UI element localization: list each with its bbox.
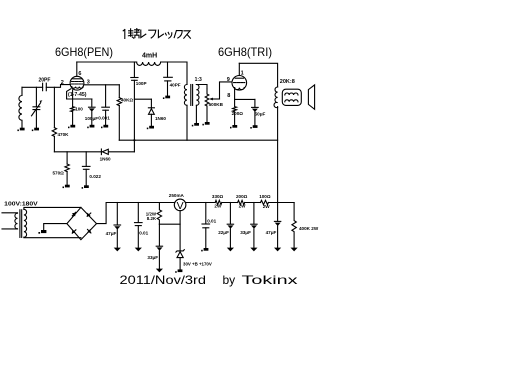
- meter V 250mA: [169, 193, 186, 212]
- cathode lead: [234, 88, 236, 100]
- plate lead up: [76, 62, 78, 76]
- svg-text:0.01: 0.01: [139, 230, 148, 235]
- svg-text:1:3: 1:3: [195, 77, 202, 83]
- wiper wire to grid: [220, 82, 232, 99]
- wire secondary top to pot: [196, 85, 207, 89]
- resistor 100ohm 2W: [259, 194, 271, 209]
- ground (0.01 second): [201, 248, 208, 251]
- ground arrow (0.01 first): [135, 248, 142, 252]
- cathode node wire: [235, 98, 255, 100]
- ground arrow (22uF): [227, 248, 234, 252]
- ground (200ohm): [230, 125, 237, 128]
- ground arrow (47uF last): [274, 248, 281, 252]
- svg-text:1N60: 1N60: [100, 157, 111, 162]
- capacitor 0.001: [98, 85, 110, 125]
- choke 4mH: [137, 53, 161, 66]
- svg-text:400K 2W: 400K 2W: [299, 226, 319, 231]
- ground (zener): [175, 269, 182, 272]
- secondary top wire: [24, 207, 81, 209]
- primary bottom to B+ rail: [186, 105, 188, 140]
- resistor 400K 2W: [292, 203, 319, 248]
- potentiometer 500KB: [205, 89, 223, 122]
- svg-text:Tokinx: Tokinx: [242, 273, 298, 287]
- ground (0.001): [101, 125, 108, 128]
- svg-text:47μF: 47μF: [266, 230, 277, 235]
- resistor 8.2K: [146, 203, 162, 225]
- rail segment: [245, 202, 261, 204]
- svg-text:20PF: 20PF: [39, 78, 51, 84]
- svg-text:by: by: [223, 273, 236, 287]
- svg-text:4mH: 4mH: [142, 53, 157, 60]
- svg-text:250mA: 250mA: [169, 193, 185, 198]
- svg-text:9: 9: [227, 77, 230, 83]
- wire 8.2K node: [159, 223, 180, 225]
- power transformer primary leads: [2, 213, 18, 229]
- cathode lead 1: [67, 89, 71, 99]
- grid leak wire down: [53, 87, 55, 127]
- resistor 200ohm 2W: [236, 194, 248, 209]
- output transformer 20K:8: [274, 79, 301, 108]
- svg-text:6GH8(TRI): 6GH8(TRI): [218, 45, 272, 59]
- svg-text:2011/Nov/3rd: 2011/Nov/3rd: [120, 273, 207, 287]
- svg-text:(1-7-45): (1-7-45): [68, 92, 87, 98]
- plate wire to OPT: [239, 63, 277, 87]
- svg-text:0.022: 0.022: [89, 174, 101, 179]
- rail segment to B+ node: [268, 202, 294, 204]
- bridge ground tap: [44, 224, 67, 230]
- speaker SP: [308, 85, 314, 109]
- ground (50uF): [250, 125, 257, 128]
- svg-text:47μF: 47μF: [106, 231, 117, 236]
- electrolytic 47uF (first filter): [106, 203, 121, 248]
- meter bottom lead: [179, 211, 181, 251]
- ground (variable capacitor): [32, 128, 39, 131]
- bridge output: [97, 203, 175, 224]
- resistor 470K: [52, 128, 69, 137]
- ground (antenna coil): [17, 128, 24, 131]
- svg-text:570Ω: 570Ω: [53, 170, 65, 175]
- pentode U1a 6GH8(PEN): [70, 76, 84, 90]
- B+ rail upper: [119, 139, 277, 141]
- zener 30V: [176, 250, 212, 270]
- svg-text:8: 8: [227, 93, 230, 99]
- wire resistor to ground: [72, 112, 74, 125]
- svg-text:50μF: 50μF: [255, 112, 266, 117]
- cathode lead 2: [72, 90, 74, 107]
- svg-text:33μF: 33μF: [147, 255, 158, 260]
- svg-text:2W: 2W: [214, 204, 222, 209]
- ground (bridge): [38, 230, 46, 234]
- wire cathode node: [67, 98, 92, 100]
- triode U1b 6GH8(TRI): [232, 76, 247, 91]
- electrolytic 33uF (second): [240, 203, 257, 248]
- svg-text:1N60: 1N60: [155, 116, 166, 121]
- resistor 200ohm (cathode): [232, 99, 244, 124]
- ground (vertical diode): [147, 126, 154, 129]
- wire antenna top: [22, 86, 43, 88]
- svg-text:2W: 2W: [239, 204, 247, 209]
- capacitor 0.022: [82, 152, 101, 185]
- svg-text:33μF: 33μF: [240, 230, 251, 235]
- screen wire: [84, 84, 119, 86]
- diode 1N60 (horizontal): [100, 149, 111, 162]
- title 1球レフレックス: [123, 29, 190, 39]
- svg-text:0.001: 0.001: [98, 116, 110, 121]
- svg-text:40KΩ: 40KΩ: [121, 98, 133, 103]
- svg-text:330Ω: 330Ω: [212, 194, 224, 199]
- svg-text:1: 1: [241, 71, 244, 77]
- wire to vertical diode: [134, 98, 151, 100]
- svg-text:500KB: 500KB: [209, 102, 224, 107]
- svg-text:0.01: 0.01: [207, 219, 216, 224]
- resistor 100 (cathode): [71, 106, 84, 111]
- variable capacitor VC1: [32, 87, 43, 127]
- electrolytic 100uF: [85, 99, 98, 125]
- capacitor 100P: [131, 62, 147, 152]
- power transformer T2: [4, 201, 38, 237]
- ground arrow (400K): [291, 248, 298, 252]
- ground (pot): [202, 122, 209, 125]
- ground (0.022): [82, 185, 89, 188]
- svg-text:100P: 100P: [136, 81, 147, 86]
- electrolytic 47uF (last): [266, 203, 281, 248]
- triode plate lead: [238, 63, 240, 75]
- svg-text:30V +B +170V: 30V +B +170V: [183, 261, 212, 266]
- electrolytic 22uF: [218, 203, 233, 248]
- capacitor 20PF: [39, 78, 51, 91]
- wire 470K to AVC line: [53, 136, 55, 151]
- ground (100uF): [87, 125, 94, 128]
- ground arrow (33uF): [156, 269, 163, 273]
- svg-text:6GH8(PEN): 6GH8(PEN): [55, 45, 113, 59]
- svg-text:100V:180V: 100V:180V: [4, 201, 38, 207]
- wire cap to grid: [46, 85, 70, 88]
- plate wire with choke: [77, 61, 137, 63]
- ground arrow (33uF second): [250, 248, 257, 252]
- diode 1N60 (vertical): [148, 99, 166, 126]
- resistor 40K (screen): [117, 85, 133, 106]
- capacitor 40PF: [164, 62, 181, 96]
- ground (40PF): [163, 96, 170, 99]
- secondary bottom to ground: [195, 105, 197, 123]
- svg-text:100Ω: 100Ω: [259, 194, 271, 199]
- rail segment: [222, 202, 238, 204]
- svg-text:2W: 2W: [263, 204, 271, 209]
- svg-text:2: 2: [61, 80, 64, 86]
- svg-text:22μF: 22μF: [218, 230, 229, 235]
- ground (T1 secondary): [192, 123, 199, 126]
- capacitor 0.01 (first): [135, 203, 149, 248]
- resistor 570ohm: [53, 152, 70, 185]
- svg-text:20K:8: 20K:8: [280, 79, 295, 85]
- wire 40K to B+ rail: [118, 106, 120, 141]
- node dot: [133, 139, 135, 141]
- svg-text:470K: 470K: [58, 132, 70, 137]
- svg-text:200Ω: 200Ω: [232, 111, 244, 116]
- ground (cathode resistor): [68, 125, 75, 128]
- svg-text:6: 6: [78, 71, 81, 77]
- bridge rectifier: [67, 207, 97, 239]
- PSU rail mid: [186, 202, 215, 204]
- svg-text:100: 100: [75, 106, 83, 111]
- electrolytic 33uF (under 8.2K): [147, 224, 162, 268]
- AVC wire: [54, 151, 134, 153]
- interstage transformer T1 1:3: [184, 77, 202, 106]
- OPT bottom to PSU rail: [277, 107, 279, 203]
- svg-text:100μF: 100μF: [85, 116, 98, 121]
- ground (570ohm): [63, 185, 70, 188]
- ground arrow (47uF): [114, 248, 121, 252]
- svg-text:200Ω: 200Ω: [236, 194, 248, 199]
- svg-text:8.2K: 8.2K: [147, 216, 157, 221]
- antenna coil L1: [19, 87, 22, 127]
- capacitor 0.01 (second): [202, 203, 217, 248]
- wire choke to transformer: [161, 62, 187, 85]
- electrolytic 50uF: [252, 99, 266, 125]
- svg-text:40PF: 40PF: [170, 82, 181, 87]
- secondary bottom wire: [24, 236, 81, 238]
- svg-text:V: V: [177, 200, 184, 212]
- resistor 330ohm 2W: [212, 194, 224, 209]
